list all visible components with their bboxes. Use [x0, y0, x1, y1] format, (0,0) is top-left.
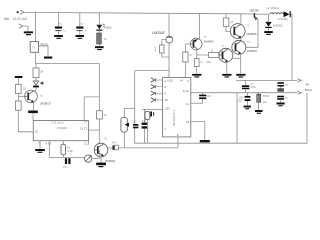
wire pin8 [177, 137, 179, 148]
wire top rail [24, 12, 242, 13]
transistor T2 [232, 40, 246, 54]
svg-text:T3: T3 [247, 41, 250, 44]
op-amp U1 main IC [163, 78, 191, 137]
svg-text:1k: 1k [189, 54, 192, 57]
resistor R3 [209, 53, 220, 58]
svg-text:18: 18 [164, 98, 168, 102]
connector Jout minus [298, 91, 301, 95]
svg-text:8: 8 [155, 50, 157, 53]
svg-text:2N4403: 2N4403 [204, 40, 215, 44]
wire 5V branch [36, 63, 100, 65]
wire cluster bottom [49, 156, 84, 158]
wire output rail A [236, 79, 297, 81]
svg-text:11: 11 [186, 102, 189, 106]
wire Cb to rail [144, 129, 146, 144]
svg-text:Vin: Vin [4, 16, 10, 21]
wire set loop top [162, 39, 167, 45]
capacitor C2 [79, 13, 81, 27]
wire pin7 down [39, 141, 41, 149]
transistor T1 [230, 24, 245, 39]
ground C2 [76, 35, 85, 37]
svg-text:schottky: schottky [278, 17, 289, 21]
capacitor C8 [247, 93, 249, 96]
wire pin14 riser to Q4 base [185, 44, 190, 78]
wire Q4 emitter down [196, 50, 198, 55]
svg-text:1u: 1u [285, 97, 288, 100]
svg-text:1u: 1u [285, 84, 288, 87]
ground D2 [264, 31, 273, 33]
ground LED [95, 46, 104, 48]
connector J1 Vin plus [17, 11, 19, 13]
wire pin11 branch [191, 102, 203, 104]
wire T3 collector link [232, 57, 241, 59]
wire node to T3 base [197, 54, 219, 56]
oscillator module X1 [33, 121, 88, 141]
ground C1 [54, 35, 63, 37]
svg-text:10: 10 [35, 130, 39, 134]
wire rail to R5 [225, 14, 227, 18]
wire T2 collector to switch base [246, 20, 258, 48]
ground bias top [15, 76, 23, 78]
svg-text:L1 100uH: L1 100uH [267, 6, 279, 10]
svg-text:9V: 9V [306, 83, 309, 87]
connector IC in2 [151, 85, 155, 89]
wire switch out [255, 13, 268, 15]
current source U3 LM334Z [166, 36, 173, 43]
svg-text:MC145170-2: MC145170-2 [172, 109, 176, 126]
inductor L4 [62, 141, 64, 145]
regulator U2 78L05 [30, 42, 38, 53]
svg-text:4u7: 4u7 [112, 142, 117, 145]
resistor R1 [97, 33, 102, 44]
svg-text:BD240: BD240 [250, 9, 259, 13]
wire regulator tab [39, 46, 49, 56]
wire pin 4,63 down [48, 141, 50, 158]
svg-text:2.2: 2.2 [133, 121, 137, 124]
svg-text:C2: C2 [104, 138, 108, 141]
svg-text:1,92: 1,92 [164, 107, 170, 111]
ground regulator [44, 57, 52, 59]
wire railB to bottom rail [236, 93, 238, 144]
wire T1 emitter to T2 [240, 38, 242, 41]
connector IC in1 [151, 78, 155, 82]
svg-text:1N5822: 1N5822 [273, 23, 283, 27]
wire bias to box [18, 110, 33, 132]
wire rail to regulator [35, 13, 37, 42]
wire rail to LM334 [168, 13, 170, 37]
transistor Q2 2N3904 [94, 143, 108, 157]
capacitor C9 [277, 82, 284, 84]
svg-text:12-20 volt: 12-20 volt [13, 17, 28, 21]
svg-text:1k: 1k [211, 50, 214, 53]
capacitor C1 [58, 13, 60, 27]
wire output rail B [191, 92, 297, 94]
svg-text:2N3055: 2N3055 [246, 32, 257, 36]
wire pin 12,73 [89, 129, 100, 131]
svg-text:1k: 1k [104, 37, 108, 41]
svg-text:T1: T1 [222, 45, 225, 48]
diode D4 [35, 78, 37, 81]
wire LM334 down [168, 42, 170, 77]
svg-text:50mA: 50mA [305, 88, 312, 92]
wire left drop [134, 71, 136, 125]
wire coil bottom to rail [146, 120, 148, 144]
svg-text:7x: 7x [32, 45, 36, 49]
resistor R4 [196, 55, 198, 59]
ground pin7 [35, 149, 45, 151]
wire T3 emitter ground [226, 62, 228, 74]
capacitor C7 [245, 80, 247, 85]
wire trimmer to base [92, 158, 99, 160]
transistor Q4 2N4403 [190, 38, 202, 50]
wire T2 emitter down [240, 54, 242, 74]
svg-text:470u: 470u [250, 86, 256, 89]
svg-text:470k: 470k [67, 150, 73, 153]
connector Jout plus [298, 79, 301, 83]
ground T3 [222, 74, 231, 76]
trimmer VC1 [85, 155, 92, 162]
svg-text:LM334Z: LM334Z [152, 31, 164, 35]
connector IC in4 [151, 98, 155, 102]
transistor T3 [219, 48, 233, 62]
wire bias top [17, 78, 19, 84]
wire pin 11,2 stub [88, 141, 90, 144]
wire trimmer branch [124, 109, 134, 121]
svg-text:10u: 10u [58, 22, 63, 26]
svg-text:100n: 100n [237, 100, 243, 103]
resistor R6 [16, 84, 22, 93]
svg-text:2n2: 2n2 [142, 120, 147, 123]
svg-text:1k: 1k [103, 113, 106, 117]
svg-text:2N2907: 2N2907 [247, 49, 258, 53]
wire rail to Q4 collector [199, 13, 201, 38]
wire Q2 emitter [100, 157, 102, 163]
wire set loop bottom [162, 53, 169, 57]
capacitor source bar [32, 102, 34, 111]
wire pin13 branch [191, 122, 205, 140]
ground Q2 [96, 163, 106, 166]
wire bottom ground rail [135, 93, 307, 144]
resistor R8 [33, 68, 39, 78]
wire R5 to T1 base [226, 26, 230, 31]
wire T1 collector to rail [240, 14, 242, 24]
svg-text:1k: 1k [200, 61, 203, 64]
wire bias x99 [98, 64, 100, 144]
ground P1 [255, 110, 263, 112]
capacitor C10 [277, 96, 284, 98]
resistor R10 on riser [183, 52, 188, 62]
capacitor Cic [150, 112, 152, 117]
coil Lc [145, 112, 150, 120]
transistor Q1 2N3819 [25, 90, 38, 103]
wire to output rail [291, 14, 292, 80]
resistor Rset 68 [160, 45, 164, 53]
capacitor C11 [202, 93, 204, 95]
resistor R7 [16, 101, 22, 110]
svg-text:1M: 1M [23, 88, 26, 91]
diode D2 catch [268, 14, 270, 22]
svg-text:10k: 10k [263, 101, 268, 104]
svg-text:1.79 (mm): 1.79 (mm) [51, 120, 64, 124]
svg-text:CS6401: CS6401 [57, 126, 68, 130]
wire bias mid [17, 94, 19, 102]
wire pin 1,92 feed [142, 108, 163, 110]
wire rail to switch [241, 13, 254, 15]
svg-text:12,73: 12,73 [80, 126, 87, 130]
svg-text:7u: 7u [84, 28, 87, 32]
wire trimmer bottom [123, 132, 125, 148]
resistor R9 [97, 111, 103, 119]
svg-text:1.8n: 1.8n [63, 166, 68, 169]
svg-text:6,15: 6,15 [167, 78, 173, 82]
svg-text:1k: 1k [40, 70, 43, 74]
wire to R8 [35, 64, 37, 69]
ground input [24, 31, 33, 33]
svg-text:T2: T2 [246, 24, 249, 27]
wire Cb riser [144, 109, 146, 122]
svg-text:2N3904: 2N3904 [105, 159, 116, 163]
wire gate [18, 95, 25, 97]
svg-text:T4: T4 [40, 95, 43, 98]
wire Ca to rail [134, 128, 136, 143]
svg-text:13: 13 [186, 120, 190, 124]
svg-text:4,63: 4,63 [46, 142, 52, 146]
svg-text:500R: 500R [263, 95, 269, 98]
wire collector to pin8 [118, 147, 178, 149]
svg-text:7u: 7u [63, 28, 66, 32]
svg-text:10: 10 [230, 20, 233, 24]
wire lm334 branch [135, 70, 169, 72]
svg-text:10n: 10n [207, 95, 212, 98]
resistor R5 [223, 18, 229, 26]
wire input minus [22, 26, 28, 31]
ground C10 [277, 103, 285, 105]
ground R4 [192, 74, 201, 76]
trimmer CT1 [121, 118, 127, 133]
svg-text:LED: LED [106, 26, 112, 30]
wire rail to LED [98, 13, 100, 25]
svg-text:6,12: 6,12 [183, 89, 189, 93]
wire LED to R1 [98, 31, 100, 33]
diode D3 schottky [284, 11, 290, 17]
connector J1 Vin minus [19, 24, 22, 28]
capacitor C12 [65, 158, 67, 164]
ground pin13 [200, 140, 210, 142]
svg-text:47k: 47k [207, 60, 212, 64]
svg-text:10u: 10u [79, 22, 84, 26]
transistor Q5 switch [254, 13, 258, 20]
wire pin14 riser [84, 97, 99, 121]
svg-text:14: 14 [180, 78, 184, 82]
inductor L1 [270, 13, 284, 14]
trimpot P1 [258, 93, 260, 94]
ground T2 [236, 74, 245, 76]
ground C8 [244, 106, 251, 108]
svg-text:2N3819: 2N3819 [40, 102, 51, 106]
connector IC in3 [151, 91, 155, 95]
wire Q2 collector [108, 147, 113, 149]
wire regulator out [35, 52, 37, 63]
LED D1 [96, 25, 102, 30]
